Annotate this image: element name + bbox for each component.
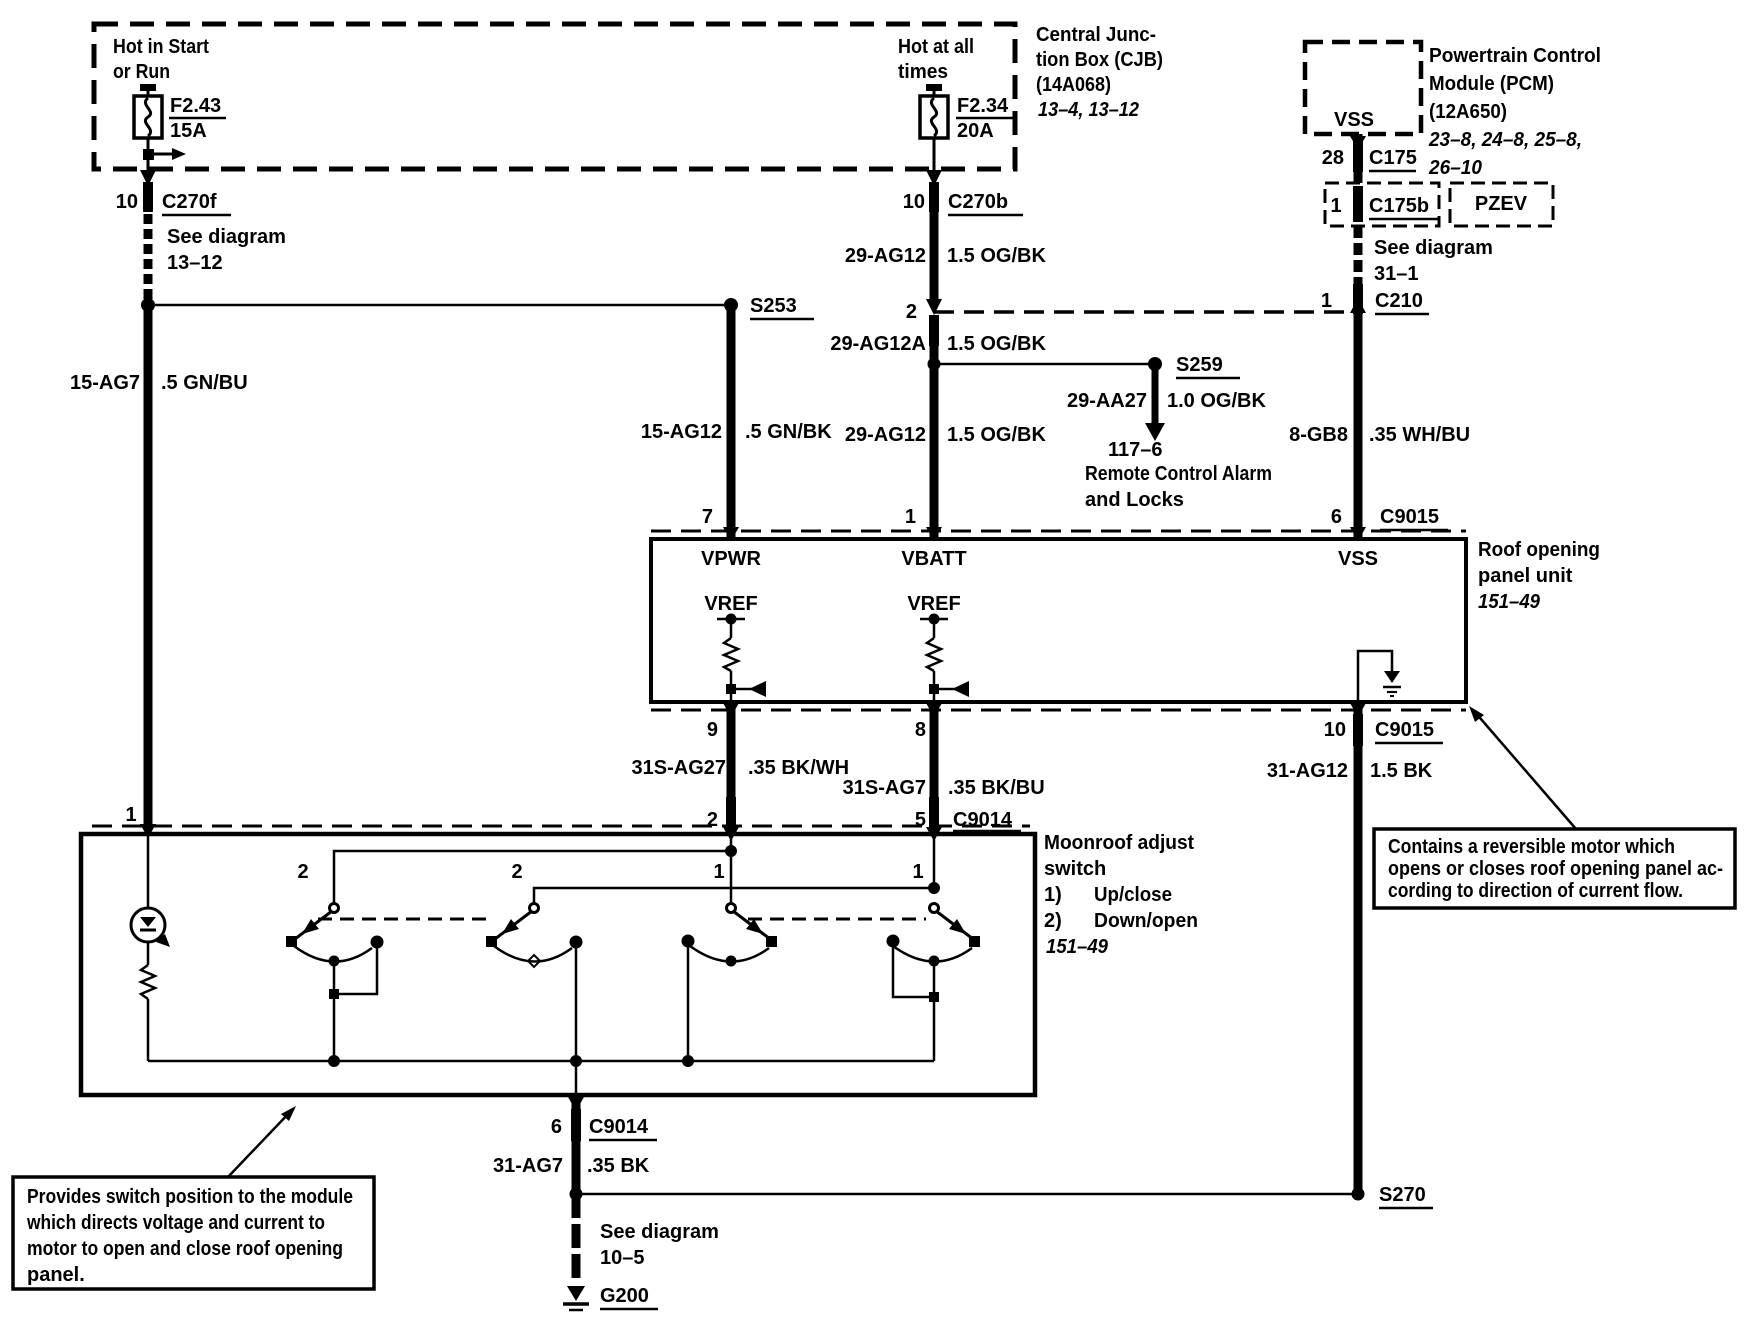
svg-text:panel.: panel. (27, 1264, 85, 1286)
svg-text:10: 10 (1324, 719, 1346, 741)
svg-text:2: 2 (511, 861, 522, 883)
svg-text:Down/open: Down/open (1094, 910, 1198, 932)
svg-text:5: 5 (915, 809, 926, 831)
svg-text:opens or closes roof opening p: opens or closes roof opening panel ac- (1388, 858, 1723, 880)
svg-text:S270: S270 (1379, 1184, 1426, 1206)
svg-text:VBATT: VBATT (901, 548, 966, 570)
svg-text:C270b: C270b (948, 191, 1008, 213)
svg-text:S253: S253 (750, 295, 797, 317)
svg-text:Powertrain Control: Powertrain Control (1429, 45, 1601, 67)
svg-text:1: 1 (1330, 195, 1341, 217)
svg-text:tion Box (CJB): tion Box (CJB) (1036, 49, 1163, 71)
svg-text:Remote Control Alarm: Remote Control Alarm (1085, 463, 1272, 485)
svg-text:See diagram: See diagram (167, 226, 286, 248)
svg-text:(12A650): (12A650) (1429, 101, 1507, 123)
svg-text:F2.43: F2.43 (170, 95, 221, 117)
svg-text:2: 2 (297, 861, 308, 883)
svg-text:switch: switch (1044, 858, 1106, 880)
svg-text:.5 GN/BK: .5 GN/BK (745, 421, 832, 443)
svg-text:23–8, 24–8, 25–8,: 23–8, 24–8, 25–8, (1428, 129, 1582, 151)
svg-text:7: 7 (702, 506, 713, 528)
svg-text:8: 8 (915, 719, 926, 741)
svg-text:1: 1 (1321, 290, 1332, 312)
svg-text:20A: 20A (957, 120, 994, 142)
svg-text:G200: G200 (600, 1285, 649, 1307)
svg-text:151–49: 151–49 (1046, 936, 1109, 958)
svg-text:10: 10 (903, 191, 925, 213)
svg-text:.35 BK: .35 BK (587, 1155, 650, 1177)
svg-text:.35 BK/BU: .35 BK/BU (948, 777, 1045, 799)
svg-text:S259: S259 (1176, 354, 1223, 376)
svg-text:2: 2 (906, 301, 917, 323)
svg-text:Provides switch position to th: Provides switch position to the module (27, 1186, 353, 1208)
svg-text:motor to open and close roof o: motor to open and close roof opening (27, 1238, 343, 1260)
svg-text:C9014: C9014 (953, 809, 1013, 831)
svg-text:28: 28 (1322, 147, 1344, 169)
svg-text:Hot in Start: Hot in Start (113, 36, 209, 58)
svg-text:PZEV: PZEV (1475, 193, 1528, 215)
svg-text:which directs voltage and curr: which directs voltage and current to (26, 1212, 325, 1234)
svg-text:Up/close: Up/close (1094, 884, 1172, 906)
svg-text:8-GB8: 8-GB8 (1289, 424, 1348, 446)
svg-text:.5 GN/BU: .5 GN/BU (161, 372, 248, 394)
svg-text:29-AG12: 29-AG12 (845, 424, 926, 446)
svg-text:26–10: 26–10 (1428, 157, 1482, 179)
svg-text:Central Junc-: Central Junc- (1036, 24, 1156, 46)
svg-text:31S-AG27: 31S-AG27 (632, 757, 727, 779)
svg-text:VSS: VSS (1338, 548, 1378, 570)
svg-text:1: 1 (125, 804, 136, 826)
svg-text:times: times (898, 61, 948, 83)
svg-text:Module (PCM): Module (PCM) (1429, 73, 1554, 95)
svg-text:1.0 OG/BK: 1.0 OG/BK (1167, 390, 1266, 412)
svg-text:.35 WH/BU: .35 WH/BU (1369, 424, 1470, 446)
svg-text:13–4, 13–12: 13–4, 13–12 (1038, 99, 1139, 121)
svg-text:panel unit: panel unit (1478, 565, 1573, 587)
svg-text:6: 6 (1331, 506, 1342, 528)
svg-text:10: 10 (116, 191, 138, 213)
svg-text:13–12: 13–12 (167, 252, 223, 274)
svg-text:117–6: 117–6 (1108, 439, 1163, 461)
svg-text:VPWR: VPWR (701, 548, 762, 570)
svg-text:15A: 15A (170, 120, 207, 142)
svg-text:1.5 BK: 1.5 BK (1370, 760, 1433, 782)
svg-text:1: 1 (912, 861, 923, 883)
svg-text:cording to direction of curren: cording to direction of current flow. (1388, 880, 1683, 902)
svg-text:1.5 OG/BK: 1.5 OG/BK (947, 245, 1046, 267)
svg-text:29-AG12A: 29-AG12A (830, 333, 926, 355)
svg-text:10–5: 10–5 (600, 1247, 645, 1269)
svg-text:Roof opening: Roof opening (1478, 539, 1600, 561)
svg-text:VREF: VREF (907, 593, 960, 615)
svg-text:See diagram: See diagram (1374, 237, 1493, 259)
svg-text:or Run: or Run (113, 61, 170, 83)
svg-text:C9015: C9015 (1375, 719, 1434, 741)
svg-text:VSS: VSS (1334, 109, 1374, 131)
svg-text:15-AG7: 15-AG7 (70, 372, 140, 394)
svg-text:(14A068): (14A068) (1036, 74, 1111, 96)
svg-text:29-AG12: 29-AG12 (845, 245, 926, 267)
svg-text:1): 1) (1044, 884, 1062, 906)
svg-text:Contains a reversible motor wh: Contains a reversible motor which (1388, 836, 1675, 858)
svg-text:1: 1 (713, 861, 724, 883)
svg-text:C175: C175 (1369, 147, 1417, 169)
svg-text:VREF: VREF (704, 593, 757, 615)
svg-text:29-AA27: 29-AA27 (1067, 390, 1147, 412)
svg-text:31S-AG7: 31S-AG7 (843, 777, 926, 799)
svg-text:and Locks: and Locks (1085, 489, 1184, 511)
svg-text:2: 2 (707, 809, 718, 831)
svg-text:15-AG12: 15-AG12 (641, 421, 722, 443)
svg-text:C175b: C175b (1369, 195, 1429, 217)
svg-text:C9015: C9015 (1380, 506, 1439, 528)
svg-text:C210: C210 (1375, 290, 1423, 312)
svg-text:Hot at all: Hot at all (898, 36, 974, 58)
svg-text:31-AG7: 31-AG7 (493, 1155, 563, 1177)
svg-text:.35 BK/WH: .35 BK/WH (748, 757, 849, 779)
svg-text:1.5 OG/BK: 1.5 OG/BK (947, 424, 1046, 446)
svg-text:Moonroof adjust: Moonroof adjust (1044, 832, 1194, 854)
svg-text:31–1: 31–1 (1374, 263, 1419, 285)
svg-text:31-AG12: 31-AG12 (1267, 760, 1348, 782)
svg-text:F2.34: F2.34 (957, 95, 1009, 117)
svg-text:6: 6 (551, 1116, 562, 1138)
svg-text:9: 9 (707, 719, 718, 741)
svg-text:C270f: C270f (162, 191, 217, 213)
svg-text:1: 1 (905, 506, 916, 528)
svg-text:1.5 OG/BK: 1.5 OG/BK (947, 333, 1046, 355)
svg-text:2): 2) (1044, 910, 1062, 932)
svg-text:See diagram: See diagram (600, 1221, 719, 1243)
svg-text:C9014: C9014 (589, 1116, 649, 1138)
svg-text:151–49: 151–49 (1478, 591, 1541, 613)
